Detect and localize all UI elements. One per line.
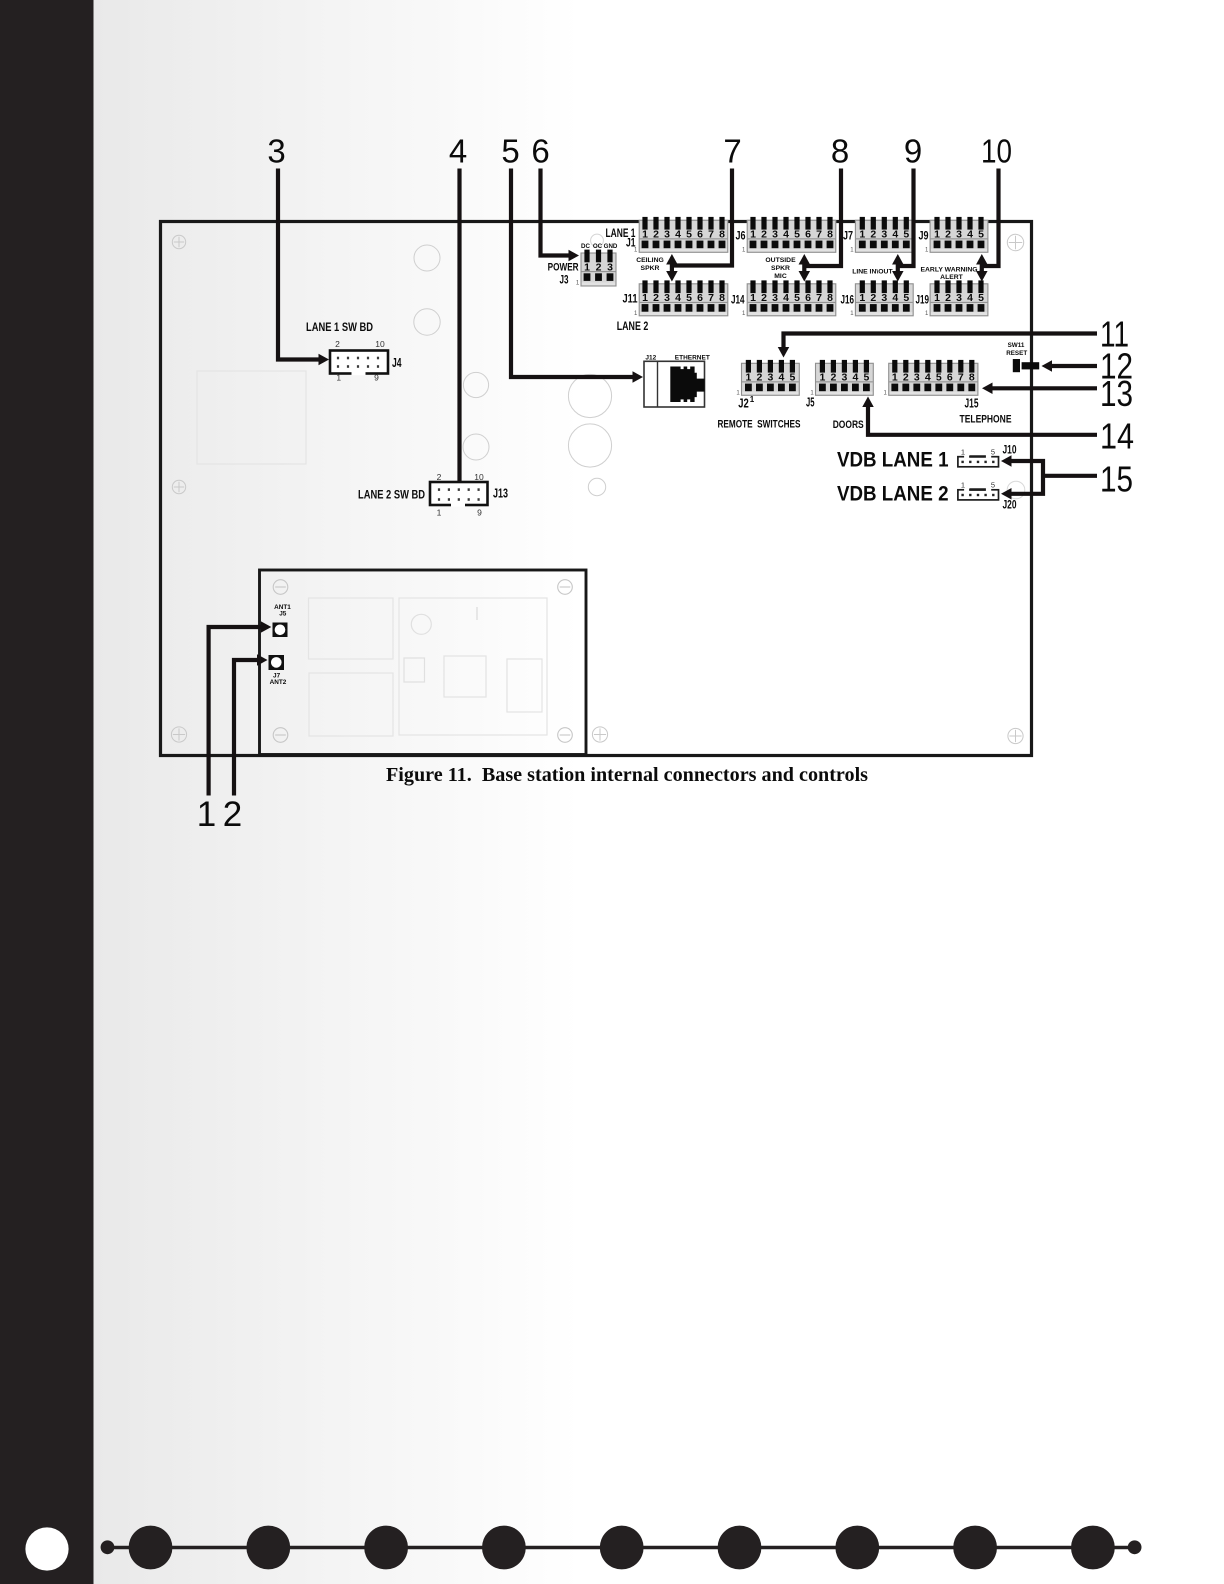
board hole near J20: [1007, 481, 1025, 499]
svg-text:LANE 1 SW BD: LANE 1 SW BD: [306, 320, 373, 334]
left sidebar black bar: [0, 0, 94, 1584]
svg-text:J14: J14: [731, 295, 745, 307]
svg-text:SPKR: SPKR: [641, 265, 660, 272]
antenna connector ANT1 (J5): [273, 623, 288, 638]
svg-text:TELEPHONE: TELEPHONE: [960, 413, 1012, 425]
label EARLY WARNING / ALERT: [920, 267, 981, 282]
svg-text:LANE 2 SW BD: LANE 2 SW BD: [358, 488, 425, 502]
connector J11 (LANE 2 row): [634, 280, 728, 317]
svg-text:9: 9: [904, 133, 922, 170]
connector J6: [742, 217, 836, 254]
svg-text:VDB LANE 2: VDB LANE 2: [837, 481, 949, 505]
faint silkscreen rectangle left: [197, 371, 306, 464]
svg-text:6: 6: [531, 133, 549, 170]
mounting hole top-right: [1007, 234, 1023, 250]
svg-text:J20: J20: [1003, 498, 1017, 512]
svg-text:VDB LANE 1: VDB LANE 1: [837, 448, 949, 472]
svg-text:J6: J6: [736, 231, 746, 243]
callout 12 leader: [1049, 364, 1097, 368]
connector J14: [742, 280, 836, 317]
callout 8 leader: [804, 169, 841, 267]
svg-text:OC: OC: [593, 243, 603, 250]
antenna connector ANT2 (J7): [269, 655, 285, 670]
callout 7 leader: [672, 169, 732, 266]
svg-text:1: 1: [437, 508, 442, 518]
mounting hole bottom-right: [1008, 728, 1023, 743]
svg-text:5: 5: [991, 480, 995, 489]
svg-text:LINE IN\OUT: LINE IN\OUT: [852, 269, 893, 276]
svg-text:5: 5: [501, 133, 519, 170]
board hole near J3: [591, 234, 604, 247]
connector J3 (POWER): [576, 250, 616, 287]
label CEILING SPKR: [636, 257, 664, 272]
RF module component outlines (faint): [309, 598, 548, 736]
sub-board screw bottom-right: [558, 728, 573, 743]
svg-text:10: 10: [981, 133, 1012, 170]
label J2 with footnote: [738, 395, 755, 411]
svg-text:CEILING: CEILING: [636, 257, 664, 264]
svg-text:2: 2: [335, 339, 340, 349]
svg-text:J3: J3: [560, 275, 569, 287]
svg-text:ANT2: ANT2: [270, 679, 287, 686]
callout 15 leader: [1009, 461, 1044, 494]
svg-text:SPKR: SPKR: [771, 265, 790, 272]
svg-text:Figure 11. Base station inter: Figure 11. Base station internal connect…: [386, 765, 868, 786]
svg-text:13: 13: [1100, 373, 1133, 414]
svg-text:J5: J5: [279, 610, 287, 617]
callout 13 leader: [990, 386, 1098, 390]
arrow CEILING SPKR (J1-J11): [670, 260, 674, 275]
callout 4 leader: [457, 169, 461, 482]
svg-text:4: 4: [449, 133, 467, 170]
connector J20 (VDB LANE 2): [958, 489, 999, 500]
callout 11 leader: [784, 334, 1098, 350]
svg-text:DC: DC: [581, 243, 590, 250]
svg-text:10: 10: [375, 339, 385, 349]
svg-text:1: 1: [750, 395, 755, 404]
sub-board screw bottom-left: [273, 728, 288, 743]
svg-text:J13: J13: [493, 486, 508, 501]
svg-text:5: 5: [991, 447, 995, 456]
svg-text:J16: J16: [841, 295, 855, 307]
svg-text:J11: J11: [623, 294, 638, 306]
main board outline: [161, 222, 1032, 756]
svg-text:J2: J2: [738, 397, 749, 411]
label OUTSIDE SPKR MIC: [765, 257, 796, 280]
svg-text:1: 1: [336, 373, 341, 383]
board drill holes (faint): [414, 245, 612, 496]
footer chain line: [107, 1546, 1135, 1549]
connector J10 (VDB LANE 1): [958, 456, 999, 467]
mounting hole mid-left: [172, 480, 185, 493]
svg-text:8: 8: [831, 133, 849, 170]
svg-text:J5: J5: [806, 396, 815, 410]
footer chain small end dots: [101, 1540, 1142, 1554]
callout 3 leader: [278, 169, 321, 360]
svg-text:EARLY WARNING /: EARLY WARNING /: [920, 267, 981, 274]
svg-text:REMOTE SWITCHES: REMOTE SWITCHES: [718, 419, 801, 431]
svg-text:J19: J19: [916, 295, 930, 307]
connector J15 (TELEPHONE): [884, 360, 978, 397]
callout 2 leader: [234, 660, 260, 796]
svg-text:ETHERNET: ETHERNET: [675, 355, 710, 362]
connector J1 (LANE 1 row): [634, 217, 728, 254]
footer chain large dots: [129, 1526, 1115, 1570]
sub-board screw top-left: [273, 580, 288, 595]
callout 14 leader: [868, 404, 1097, 435]
callout 10 leader: [982, 169, 999, 267]
svg-text:J7: J7: [843, 231, 853, 243]
connector J4 (LANE 1 switch board header): [330, 339, 388, 383]
svg-text:J9: J9: [919, 231, 929, 243]
svg-text:DOORS: DOORS: [833, 419, 864, 431]
svg-text:SW11: SW11: [1008, 342, 1025, 349]
svg-text:J1: J1: [626, 238, 636, 250]
svg-text:LANE 2: LANE 2: [617, 319, 649, 333]
switch SW11 (RESET): [1013, 359, 1039, 372]
svg-text:7: 7: [723, 133, 741, 170]
svg-text:MIC: MIC: [774, 273, 787, 280]
svg-text:OUTSIDE: OUTSIDE: [765, 257, 796, 264]
pin labels J10: [961, 447, 995, 456]
callout 6 leader: [541, 169, 572, 256]
svg-text:9: 9: [477, 508, 482, 518]
RF module sub-board outline: [260, 570, 587, 755]
ethernet jack J12: [644, 361, 705, 407]
connector J5 (DOORS): [810, 360, 873, 397]
sub-board screw top-right: [558, 580, 573, 595]
callout 5 leader: [511, 169, 635, 378]
svg-text:2: 2: [223, 795, 242, 834]
connector J9: [925, 217, 988, 254]
svg-text:9: 9: [374, 373, 379, 383]
svg-text:1: 1: [961, 447, 965, 456]
svg-text:GND: GND: [604, 243, 618, 250]
connector J2 (REMOTE SWITCHES): [736, 360, 799, 397]
svg-text:J10: J10: [1003, 443, 1017, 457]
svg-text:1: 1: [961, 480, 965, 489]
arrow OUTSIDE SPKR MIC (J6-J14): [802, 260, 806, 275]
labels DC OC GND: [581, 243, 618, 250]
svg-text:1: 1: [197, 795, 216, 834]
connector J16: [850, 280, 913, 317]
svg-text:ALERT: ALERT: [940, 274, 964, 281]
mounting hole bottom-center: [592, 727, 607, 742]
arrow EARLY WARNING (J9-J19): [980, 260, 984, 275]
connector J7: [850, 217, 913, 254]
svg-text:J15: J15: [965, 397, 979, 411]
svg-text:14: 14: [1100, 416, 1134, 457]
svg-text:2: 2: [437, 472, 442, 482]
connector J19: [925, 280, 988, 317]
arrow LINE IN/OUT (J7-J16): [896, 260, 900, 275]
page gradient wash: [93, 0, 580, 1584]
svg-text:3: 3: [267, 133, 285, 170]
callout 9 leader: [898, 169, 914, 267]
mounting hole bottom-left: [171, 727, 186, 742]
mounting hole top-left: [172, 235, 185, 248]
svg-text:J4: J4: [392, 355, 402, 370]
pin labels J20: [961, 480, 995, 489]
svg-text:10: 10: [474, 472, 484, 482]
svg-text:15: 15: [1100, 458, 1133, 499]
callout 1 leader: [209, 627, 263, 796]
footer white circle on sidebar: [25, 1527, 68, 1570]
svg-text:J12: J12: [645, 355, 656, 362]
svg-text:POWER: POWER: [548, 262, 579, 274]
svg-text:RESET: RESET: [1006, 350, 1027, 357]
connector J13 (LANE 2 switch board header): [430, 472, 488, 518]
